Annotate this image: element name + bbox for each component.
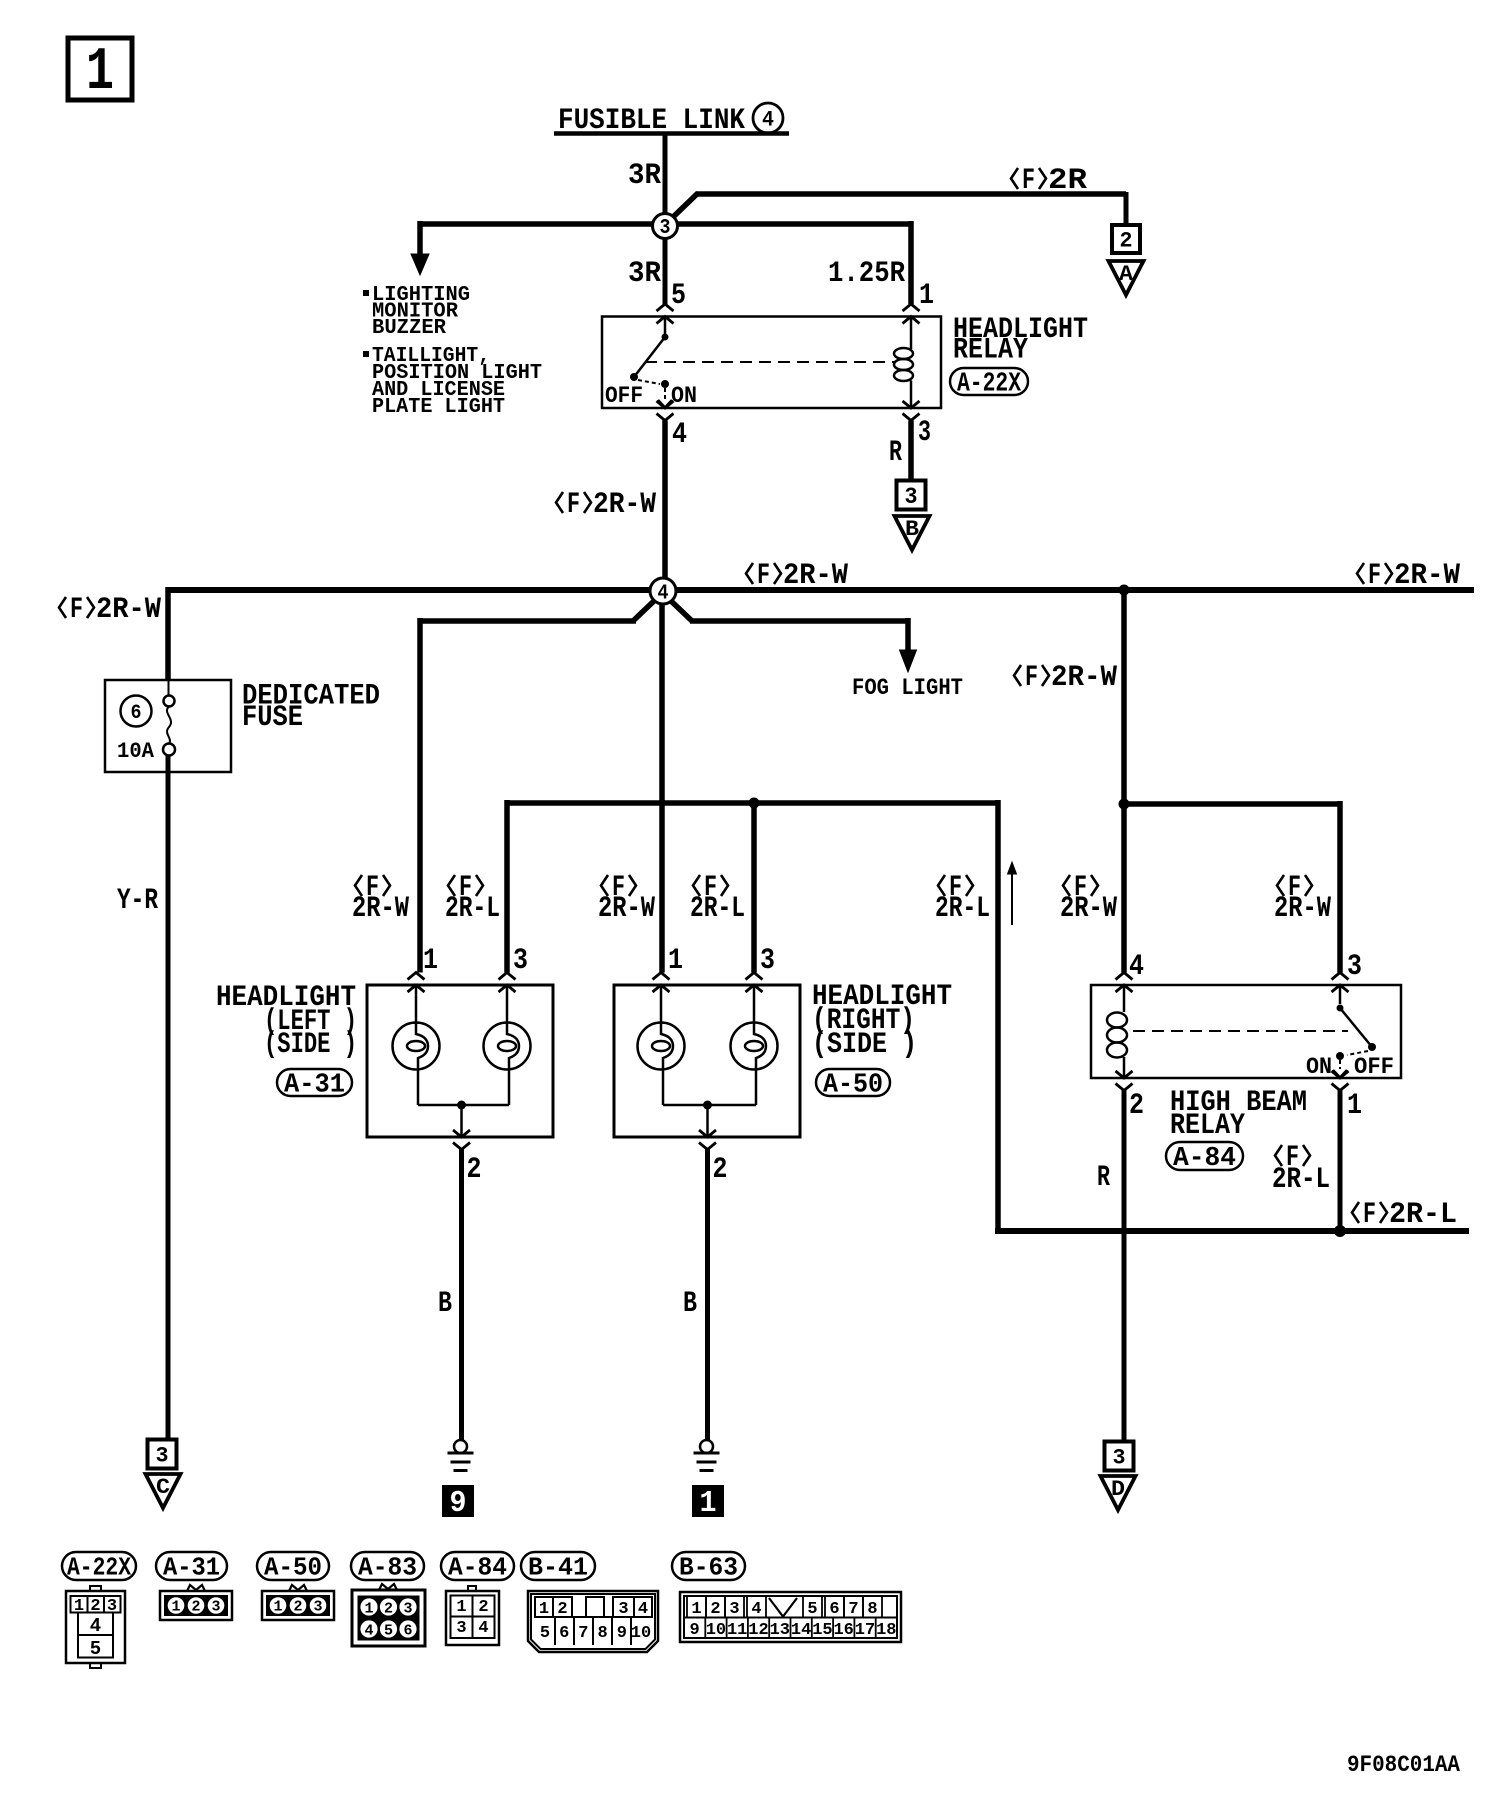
svg-text:4: 4 (672, 418, 687, 452)
svg-text:2: 2 (384, 1601, 393, 1618)
svg-text:8: 8 (867, 1600, 877, 1619)
svg-text:9: 9 (450, 1486, 467, 1521)
svg-text:14: 14 (791, 1621, 811, 1640)
svg-text:D: D (1111, 1477, 1125, 1502)
svg-text:4: 4 (90, 1615, 101, 1637)
svg-text:RELAY: RELAY (1170, 1109, 1245, 1143)
svg-text:2R-L: 2R-L (445, 892, 500, 926)
svg-text:12: 12 (748, 1621, 768, 1640)
svg-text:4: 4 (751, 1600, 761, 1619)
svg-text:F: F (567, 488, 580, 522)
svg-text:3: 3 (918, 416, 931, 450)
svg-text:A: A (1119, 262, 1134, 287)
svg-text:1: 1 (1347, 1089, 1362, 1123)
svg-text:5: 5 (384, 1623, 393, 1640)
svg-text:B: B (905, 517, 919, 542)
svg-text:Y-R: Y-R (117, 884, 158, 918)
svg-text:2: 2 (191, 1599, 200, 1616)
svg-text:5: 5 (807, 1600, 817, 1619)
svg-text:B: B (438, 1287, 452, 1321)
svg-text:(SIDE ): (SIDE ) (264, 1028, 357, 1062)
svg-text:RELAY: RELAY (953, 334, 1028, 368)
svg-text:9F08C01AA: 9F08C01AA (1347, 1752, 1460, 1778)
svg-text:9: 9 (689, 1621, 699, 1640)
svg-text:3: 3 (313, 1599, 322, 1616)
svg-text:3R: 3R (628, 159, 661, 193)
svg-text:3: 3 (1347, 950, 1362, 984)
svg-text:A-84: A-84 (448, 1553, 507, 1583)
svg-text:6: 6 (559, 1624, 569, 1643)
svg-text:OFF: OFF (605, 383, 643, 409)
svg-text:2: 2 (713, 1153, 728, 1187)
svg-text:2R-L: 2R-L (690, 892, 745, 926)
svg-text:A-22X: A-22X (67, 1553, 131, 1583)
svg-text:B: B (683, 1287, 697, 1321)
svg-text:2: 2 (293, 1599, 302, 1616)
svg-text:2: 2 (467, 1153, 482, 1187)
svg-text:ON: ON (1306, 1054, 1332, 1080)
svg-text:3: 3 (1113, 1445, 1126, 1470)
svg-text:16: 16 (833, 1621, 853, 1640)
svg-text:2R-W: 2R-W (1060, 892, 1117, 926)
svg-text:F: F (1022, 164, 1035, 198)
svg-text:1: 1 (919, 279, 934, 313)
svg-text:F: F (1025, 661, 1038, 695)
svg-text:8: 8 (597, 1624, 607, 1643)
svg-text:B-63: B-63 (679, 1553, 738, 1583)
svg-text:ON: ON (671, 383, 697, 409)
svg-text:A-50: A-50 (823, 1070, 883, 1100)
svg-text:FOG LIGHT: FOG LIGHT (852, 675, 963, 701)
svg-text:1: 1 (668, 944, 683, 978)
svg-text:10A: 10A (117, 739, 155, 764)
svg-text:F: F (70, 593, 83, 627)
svg-text:5: 5 (540, 1624, 550, 1643)
svg-text:13: 13 (770, 1621, 790, 1640)
svg-text:OFF: OFF (1354, 1054, 1394, 1080)
svg-text:BUZZER: BUZZER (372, 317, 446, 340)
svg-text:1: 1 (691, 1600, 701, 1619)
svg-text:R: R (1097, 1161, 1110, 1195)
svg-text:PLATE LIGHT: PLATE LIGHT (372, 396, 505, 419)
svg-text:1: 1 (364, 1601, 373, 1618)
svg-text:2R-L: 2R-L (935, 892, 990, 926)
svg-text:(SIDE ): (SIDE ) (812, 1028, 917, 1062)
svg-text:FUSE: FUSE (242, 701, 303, 735)
svg-text:A-83: A-83 (358, 1553, 417, 1583)
svg-text:3: 3 (403, 1601, 412, 1618)
svg-text:18: 18 (876, 1621, 896, 1640)
svg-text:F: F (1368, 559, 1381, 593)
svg-text:6: 6 (829, 1600, 839, 1619)
svg-text:4: 4 (658, 583, 669, 606)
svg-text:4: 4 (762, 108, 774, 133)
svg-text:3: 3 (211, 1599, 220, 1616)
svg-text:1: 1 (86, 39, 114, 107)
svg-text:5: 5 (90, 1638, 101, 1660)
svg-text:4: 4 (364, 1623, 373, 1640)
svg-text:10: 10 (631, 1624, 651, 1643)
svg-text:9: 9 (617, 1624, 627, 1643)
svg-text:A-22X: A-22X (957, 369, 1022, 399)
svg-text:5: 5 (671, 279, 686, 313)
svg-text:11: 11 (727, 1621, 747, 1640)
svg-text:C: C (156, 1475, 170, 1500)
svg-text:B-41: B-41 (528, 1553, 588, 1583)
svg-text:7: 7 (848, 1600, 858, 1619)
svg-text:A-84: A-84 (1173, 1144, 1236, 1174)
svg-text:6: 6 (403, 1623, 412, 1640)
svg-text:3: 3 (760, 944, 775, 978)
svg-text:1: 1 (423, 944, 438, 978)
svg-text:A-31: A-31 (284, 1070, 345, 1100)
svg-text:6: 6 (131, 702, 142, 725)
svg-text:2R-W: 2R-W (783, 559, 848, 593)
svg-text:R: R (889, 436, 902, 470)
svg-text:2R-W: 2R-W (1274, 892, 1331, 926)
svg-text:2R-W: 2R-W (352, 892, 409, 926)
svg-text:A-31: A-31 (163, 1553, 220, 1583)
svg-text:A-50: A-50 (264, 1553, 322, 1583)
svg-text:1: 1 (171, 1599, 180, 1616)
svg-text:2R-W: 2R-W (598, 892, 655, 926)
svg-text:2R-W: 2R-W (1051, 661, 1117, 695)
svg-text:2R-L: 2R-L (1389, 1198, 1457, 1232)
svg-text:2R-W: 2R-W (1394, 559, 1460, 593)
svg-text:1: 1 (700, 1486, 717, 1521)
svg-text:2: 2 (1129, 1089, 1144, 1123)
svg-text:2: 2 (478, 1598, 488, 1617)
svg-text:3R: 3R (628, 257, 661, 291)
svg-text:4: 4 (478, 1619, 488, 1638)
svg-text:3: 3 (456, 1619, 466, 1638)
svg-text:2R-L: 2R-L (1272, 1163, 1330, 1197)
svg-text:F: F (757, 559, 770, 593)
svg-text:3: 3 (513, 944, 528, 978)
svg-text:2: 2 (710, 1600, 720, 1619)
svg-text:2R-W: 2R-W (96, 593, 161, 627)
svg-text:1.25R: 1.25R (828, 257, 905, 291)
svg-text:3: 3 (905, 484, 918, 510)
svg-text:2R: 2R (1048, 164, 1087, 198)
svg-text:17: 17 (855, 1621, 875, 1640)
svg-text:7: 7 (578, 1624, 588, 1643)
svg-text:3: 3 (729, 1600, 739, 1619)
svg-text:10: 10 (706, 1621, 726, 1640)
svg-text:2R-W: 2R-W (593, 488, 656, 522)
svg-text:F: F (1363, 1198, 1376, 1232)
svg-text:15: 15 (812, 1621, 832, 1640)
svg-text:1: 1 (456, 1598, 466, 1617)
svg-text:3: 3 (156, 1443, 169, 1468)
svg-text:3: 3 (660, 217, 671, 240)
svg-text:1: 1 (273, 1599, 282, 1616)
svg-text:2: 2 (1120, 228, 1133, 253)
